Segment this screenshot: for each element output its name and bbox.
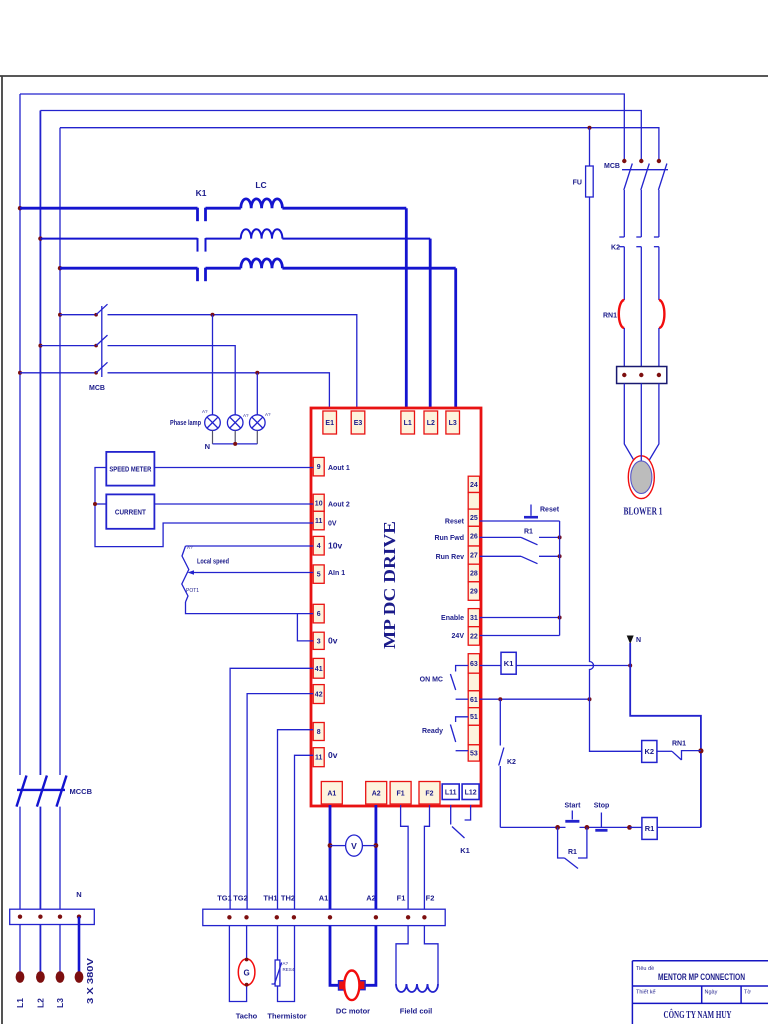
wire control common vertical bbox=[559, 521, 561, 636]
node strip terminal TH2 bbox=[292, 915, 296, 919]
node RN1 to N junction bbox=[698, 748, 703, 753]
wire pin61 rung bbox=[480, 698, 590, 700]
generator Tacho G bbox=[229, 926, 246, 1002]
svg-text:28: 28 bbox=[470, 571, 478, 578]
wire lamp3 drop bbox=[256, 373, 258, 415]
svg-text:L2: L2 bbox=[427, 420, 435, 427]
wire rung start-stop bbox=[580, 826, 630, 828]
svg-text:L1: L1 bbox=[404, 420, 412, 427]
title block frame bbox=[632, 961, 768, 1024]
svg-text:F1: F1 bbox=[397, 790, 405, 797]
node lamp neutral junction bbox=[233, 442, 237, 446]
svg-text:A1: A1 bbox=[319, 894, 329, 903]
contactor K1 + choke LC row 2 (to drive L2) bbox=[38, 236, 42, 240]
wire left phase drop 2 bbox=[39, 111, 41, 776]
svg-text:42: 42 bbox=[315, 692, 323, 699]
wire F1 drive to strip bbox=[401, 805, 409, 909]
svg-text:TG2: TG2 bbox=[233, 894, 248, 903]
node run fwd junction bbox=[558, 535, 562, 539]
svg-text:11: 11 bbox=[315, 518, 323, 525]
pin 61 (drive right) bbox=[468, 691, 479, 708]
overload RN1 pole 1 arc bbox=[619, 300, 624, 328]
svg-text:Ready: Ready bbox=[422, 728, 443, 735]
contact RN1 (NC overload) bbox=[657, 750, 672, 752]
svg-text:A?: A? bbox=[187, 545, 193, 550]
border frame top line bbox=[0, 75, 768, 77]
wire MCB pole1 to E3 bbox=[108, 315, 357, 408]
svg-text:22: 22 bbox=[470, 633, 478, 640]
breaker MCB linkage bar bbox=[101, 306, 103, 377]
svg-text:R1: R1 bbox=[568, 849, 577, 856]
pin 6 (drive left) bbox=[313, 604, 324, 623]
node strip terminal TG1 bbox=[227, 915, 231, 919]
svg-text:3 X 380V: 3 X 380V bbox=[85, 958, 95, 1004]
relay coil K1 bbox=[501, 652, 516, 674]
svg-text:63: 63 bbox=[470, 661, 478, 668]
wire RN1 pole3 tail bbox=[658, 328, 660, 367]
svg-text:0v: 0v bbox=[328, 750, 338, 760]
svg-text:K1: K1 bbox=[196, 188, 207, 198]
wire lamp neutral bus N bbox=[213, 430, 258, 444]
pin blank (drive right) bbox=[468, 673, 479, 691]
wire A1 drive to strip (armature +) bbox=[329, 805, 332, 909]
svg-text:R1: R1 bbox=[524, 529, 533, 536]
contact R1 latch (parallel with Start) bbox=[558, 827, 565, 858]
breaker MCB (left) pole 2 bbox=[38, 344, 42, 348]
node enable junction bbox=[558, 616, 562, 620]
svg-text:F2: F2 bbox=[426, 894, 435, 903]
svg-text:AIn 1: AIn 1 bbox=[328, 570, 345, 577]
pushbutton Stop (NC) bbox=[595, 813, 607, 831]
terminal A2 (drive bottom) bbox=[366, 782, 387, 805]
wire MCCB pole tails bbox=[19, 807, 21, 910]
svg-text:51: 51 bbox=[470, 714, 478, 721]
svg-text:TH1: TH1 bbox=[263, 894, 277, 903]
wire stop to R1 coil bbox=[630, 826, 642, 828]
svg-text:26: 26 bbox=[470, 534, 478, 541]
node blower terminal bbox=[622, 373, 626, 377]
motor BLOWER 1 bbox=[628, 456, 654, 499]
wire pin10 to current meter bbox=[154, 503, 313, 505]
terminal L3 (drive top) bbox=[446, 411, 460, 434]
svg-text:A?: A? bbox=[283, 961, 289, 966]
terminal A1 (drive bottom) bbox=[321, 782, 342, 805]
relay coil K2 bbox=[642, 741, 657, 763]
node strip terminal A2 bbox=[374, 915, 378, 919]
node blower terminal bbox=[657, 373, 661, 377]
terminal strip (motor side) bbox=[203, 909, 445, 925]
svg-text:RN1: RN1 bbox=[603, 313, 617, 320]
svg-text:K1: K1 bbox=[460, 846, 470, 855]
node N arrow bbox=[627, 636, 634, 645]
meter CURRENT bbox=[106, 494, 154, 528]
relay coil R1 bbox=[642, 818, 657, 840]
svg-text:0v: 0v bbox=[328, 636, 338, 646]
node strip terminal F1 bbox=[406, 915, 410, 919]
pin 11 (drive left) label 0v bbox=[313, 748, 324, 767]
svg-text:TG1: TG1 bbox=[217, 894, 232, 903]
wire pin22 24V bbox=[480, 635, 560, 637]
svg-text:POT1: POT1 bbox=[186, 588, 199, 594]
svg-text:F2: F2 bbox=[425, 790, 433, 797]
node MCB right pole 2 top bbox=[639, 159, 643, 163]
svg-text:Thiết kế: Thiết kế bbox=[636, 990, 656, 996]
node supply terminal bbox=[18, 915, 22, 919]
svg-text:Start: Start bbox=[565, 803, 582, 810]
svg-text:Tờ: Tờ bbox=[744, 990, 751, 996]
node run rev junction bbox=[558, 554, 562, 558]
pin 51 (drive right) bbox=[468, 708, 479, 726]
breaker MCB (left) pole 1 bbox=[58, 313, 62, 317]
contact ON MC (63-61) bbox=[456, 666, 469, 672]
pin 24 (drive right) bbox=[468, 476, 479, 492]
wire N rail bbox=[630, 643, 701, 827]
pin 26 (drive right) bbox=[468, 526, 479, 546]
pin 25 (drive right) bbox=[468, 509, 479, 526]
pushbutton Reset bbox=[524, 505, 538, 518]
terminal L1 (drive top) bbox=[401, 411, 415, 434]
node start rung left junction bbox=[555, 825, 560, 830]
wire pin31 Enable bbox=[480, 617, 560, 619]
wire R1 coil to N rail bbox=[657, 826, 701, 828]
svg-text:TH2: TH2 bbox=[281, 894, 295, 903]
pin 29 (drive right) bbox=[468, 582, 479, 601]
svg-text:10v: 10v bbox=[328, 541, 342, 551]
wire pin4 10v to pot top bbox=[186, 545, 314, 547]
svg-text:Enable: Enable bbox=[441, 615, 464, 622]
node strip terminal A1 bbox=[328, 915, 332, 919]
svg-text:5: 5 bbox=[317, 572, 321, 579]
svg-text:FU: FU bbox=[573, 180, 582, 187]
meter SPEED METER bbox=[106, 452, 154, 486]
wire MCB pole 3 lower bbox=[658, 190, 660, 237]
pin 22 (drive right) bbox=[468, 627, 479, 646]
wire K1 coil to N bbox=[516, 665, 630, 667]
svg-text:Phase lamp: Phase lamp bbox=[170, 420, 201, 427]
wire pin42 to TG2 bbox=[247, 694, 313, 910]
wire pin9 to speed meter bbox=[154, 467, 313, 469]
lamp phase lamp 3 bbox=[249, 415, 265, 431]
terminal L2 (drive top) bbox=[424, 411, 438, 434]
node A2 V-tap bbox=[374, 843, 379, 848]
wire MCB pole 2 lower bbox=[640, 190, 642, 237]
svg-text:ON MC: ON MC bbox=[420, 677, 443, 684]
wire phase-2 top feed L2 bbox=[40, 111, 641, 161]
node strip terminal F2 bbox=[422, 915, 426, 919]
wire left phase drop 3 bbox=[59, 128, 61, 775]
contactor K1 + choke LC row 3 (to drive L3) bbox=[58, 266, 62, 270]
svg-text:3: 3 bbox=[317, 638, 321, 645]
svg-text:8: 8 bbox=[317, 729, 321, 736]
node MCB right pole 3 top bbox=[657, 159, 661, 163]
node FU tap junction on phase-3 feed bbox=[588, 126, 592, 130]
svg-text:L1: L1 bbox=[15, 998, 25, 1008]
contact K1 (field loop L11-L12) bbox=[450, 805, 452, 825]
node 61-K2aux junction bbox=[498, 697, 502, 701]
wire MCB pole2 to lamp 2 bbox=[108, 346, 236, 415]
wire current meter stub bbox=[95, 503, 106, 505]
wire MCB pole 1 lower bbox=[623, 190, 625, 237]
wire F2 drive to strip bbox=[424, 805, 429, 909]
svg-text:24V: 24V bbox=[452, 633, 465, 640]
wire blower lead 1 bbox=[624, 384, 634, 461]
pin 41 (drive left) bbox=[313, 658, 324, 678]
wire pin25 reset rung bbox=[480, 520, 560, 522]
pin blank (drive right) bbox=[468, 725, 479, 745]
node 61-FU junction bbox=[588, 697, 592, 701]
wire phase-1 top feed L1 bbox=[20, 94, 624, 160]
contact Ready (51-53) bbox=[456, 717, 469, 722]
node lamp3 tap bbox=[255, 371, 259, 375]
svg-text:MCB: MCB bbox=[604, 163, 620, 170]
node supply dot bbox=[56, 971, 65, 983]
pushbutton Start bbox=[565, 811, 579, 822]
node supply dot bbox=[36, 971, 45, 983]
svg-text:A?: A? bbox=[265, 412, 271, 417]
svg-text:MCB: MCB bbox=[89, 385, 105, 392]
node MCB right pole 1 top bbox=[622, 159, 626, 163]
pin blank (drive right) bbox=[468, 493, 479, 510]
wire pot wiper to pin5 AIn1 bbox=[191, 572, 313, 574]
svg-text:R1: R1 bbox=[645, 824, 655, 833]
svg-text:MP DC DRIVE: MP DC DRIVE bbox=[380, 521, 399, 649]
switch Run Fwd pin26 bbox=[480, 536, 521, 538]
wire pot bottom to pin6 bbox=[186, 602, 314, 614]
wire A2 drive to strip (armature -) bbox=[374, 805, 377, 909]
svg-text:MCCB: MCCB bbox=[70, 787, 93, 796]
pin 31 (drive right) bbox=[468, 609, 479, 627]
pin 9 (drive left) label Aout 1 bbox=[313, 457, 324, 476]
svg-text:A?: A? bbox=[202, 409, 208, 414]
svg-text:Ngày: Ngày bbox=[705, 990, 718, 996]
svg-text:A1: A1 bbox=[327, 790, 336, 797]
svg-text:RES4: RES4 bbox=[283, 967, 295, 972]
pin 27 (drive right) bbox=[468, 546, 479, 564]
potentiometer POT1 bbox=[182, 546, 189, 602]
pin 28 (drive right) bbox=[468, 564, 479, 582]
svg-text:N: N bbox=[76, 890, 81, 899]
svg-text:K2: K2 bbox=[611, 245, 620, 252]
svg-text:LC: LC bbox=[255, 180, 266, 190]
svg-text:25: 25 bbox=[470, 515, 478, 522]
wire pin6 to pin3 jog bbox=[297, 614, 313, 641]
wire 61 node down to K2 coil bbox=[590, 699, 642, 751]
inductor Field coil bbox=[396, 926, 408, 984]
svg-text:A?: A? bbox=[243, 413, 249, 418]
node stop-R1 junction bbox=[627, 825, 632, 830]
terminal F2 (drive bottom) bbox=[419, 782, 440, 805]
svg-text:N: N bbox=[205, 442, 210, 451]
wire MCB pole3 to E1 bbox=[108, 373, 330, 408]
svg-text:F1: F1 bbox=[397, 894, 406, 903]
svg-text:A2: A2 bbox=[372, 790, 381, 797]
node start rung right junction bbox=[585, 825, 590, 830]
svg-text:MENTOR MP CONNECTION: MENTOR MP CONNECTION bbox=[658, 972, 745, 983]
svg-text:31: 31 bbox=[470, 615, 478, 622]
node supply dot bbox=[16, 971, 25, 983]
svg-text:53: 53 bbox=[470, 750, 478, 757]
terminal E3 (drive top) bbox=[351, 411, 365, 434]
pin 5 (drive left) label AIn 1 bbox=[313, 565, 324, 583]
contactor K2 pole 2 bbox=[636, 236, 641, 238]
node meters common junction bbox=[93, 502, 97, 506]
overload RN1 pole 3 arc bbox=[659, 300, 665, 328]
terminal E1 (drive top) bbox=[323, 411, 337, 434]
wire supply leads bbox=[19, 925, 21, 973]
breaker MCB right pole 2 blade bbox=[641, 164, 650, 191]
fuse FU body bbox=[586, 166, 594, 197]
svg-text:61: 61 bbox=[470, 697, 478, 704]
wire left phase drop 1 bbox=[19, 94, 21, 775]
motor DC motor bbox=[330, 926, 340, 986]
svg-text:6: 6 bbox=[317, 611, 321, 618]
wire pin41 to TG1 bbox=[230, 668, 313, 909]
wire RN1 pole1 tail bbox=[623, 328, 625, 367]
svg-text:K1: K1 bbox=[504, 659, 514, 668]
switch Run Rev pin27 bbox=[480, 555, 521, 557]
terminal strip (supply) bbox=[10, 909, 95, 924]
breaker MCB right pole 1 blade bbox=[624, 164, 633, 191]
wire meters common return to pin11 0V bbox=[95, 468, 313, 547]
breaker MCB (left) pole 3 bbox=[18, 371, 22, 375]
wire blower lead 3 bbox=[649, 384, 659, 461]
svg-text:Local speed: Local speed bbox=[197, 559, 229, 566]
pin 11 (drive left) label 0V bbox=[313, 511, 324, 530]
svg-text:11: 11 bbox=[315, 755, 323, 762]
svg-text:L2: L2 bbox=[35, 998, 45, 1008]
svg-text:41: 41 bbox=[315, 666, 323, 673]
terminal L11 (drive bottom) bbox=[442, 784, 459, 800]
svg-text:CÔNG TY NAM HUY: CÔNG TY NAM HUY bbox=[664, 1008, 732, 1021]
node K1 coil to N junction bbox=[628, 664, 632, 668]
svg-text:L3: L3 bbox=[449, 420, 457, 427]
node strip terminal TH1 bbox=[275, 915, 279, 919]
lamp phase lamp 1 bbox=[205, 415, 221, 431]
node supply dot bbox=[75, 971, 84, 983]
lamp phase lamp 2 bbox=[227, 415, 243, 431]
breaker MCB right pole 3 blade bbox=[658, 164, 667, 191]
border frame left line bbox=[1, 76, 3, 1024]
svg-text:CURRENT: CURRENT bbox=[115, 508, 146, 517]
node supply terminal bbox=[77, 915, 81, 919]
svg-text:DC motor: DC motor bbox=[336, 1007, 370, 1016]
pin 8 (drive left) bbox=[313, 723, 324, 741]
node supply terminal bbox=[58, 915, 62, 919]
svg-text:RN1: RN1 bbox=[672, 741, 686, 748]
svg-text:Thermistor: Thermistor bbox=[267, 1012, 306, 1021]
wire pin11b to TH2 bbox=[295, 755, 314, 909]
svg-text:4: 4 bbox=[317, 543, 321, 550]
svg-text:Reset: Reset bbox=[445, 519, 465, 526]
node lamp1 tap bbox=[211, 313, 215, 317]
svg-text:24: 24 bbox=[470, 482, 478, 489]
svg-text:BLOWER 1: BLOWER 1 bbox=[624, 507, 663, 518]
svg-text:Field coil: Field coil bbox=[400, 1007, 433, 1016]
svg-text:29: 29 bbox=[470, 589, 478, 596]
thermistor RES4 bbox=[277, 926, 279, 960]
wire blower lead 2 bbox=[640, 384, 642, 464]
svg-text:Aout 1: Aout 1 bbox=[328, 465, 350, 472]
svg-text:9: 9 bbox=[317, 464, 321, 471]
contact K2 (aux, vertical) bbox=[499, 699, 501, 745]
pin 3 (drive left) label 0v bbox=[313, 632, 324, 649]
wiper arrow bbox=[188, 570, 195, 575]
svg-text:Tacho: Tacho bbox=[236, 1012, 258, 1021]
svg-text:Stop: Stop bbox=[594, 803, 610, 810]
wire pin8 to TH1 bbox=[278, 730, 314, 910]
svg-text:SPEED METER: SPEED METER bbox=[109, 467, 151, 474]
svg-text:E3: E3 bbox=[354, 420, 363, 427]
svg-text:L3: L3 bbox=[55, 998, 65, 1008]
svg-text:Aout 2: Aout 2 bbox=[328, 502, 350, 509]
svg-text:G: G bbox=[243, 968, 249, 977]
pin 10 (drive left) label Aout 2 bbox=[313, 494, 324, 511]
svg-text:E1: E1 bbox=[325, 420, 334, 427]
svg-text:K2: K2 bbox=[645, 747, 655, 756]
node A1 V-tap bbox=[328, 843, 333, 848]
terminal L12 (drive bottom) bbox=[462, 784, 479, 800]
wire start/stop rung bbox=[500, 826, 565, 828]
svg-text:A2: A2 bbox=[366, 894, 376, 903]
pin 42 (drive left) bbox=[313, 685, 324, 704]
breaker MCB right linkage bbox=[622, 169, 668, 171]
meter V (armature volts) bbox=[330, 845, 346, 847]
MP DC DRIVE block outline U1 bbox=[311, 408, 481, 806]
svg-text:K2: K2 bbox=[507, 759, 516, 766]
svg-text:V: V bbox=[351, 841, 357, 851]
fuse FU feeder line bbox=[590, 128, 594, 700]
svg-text:27: 27 bbox=[470, 553, 478, 560]
contactor K2 pole 1 bbox=[619, 236, 624, 238]
svg-text:Run Rev: Run Rev bbox=[436, 554, 465, 561]
breaker MCCB 3-pole bbox=[17, 776, 27, 807]
node blower terminal bbox=[639, 373, 643, 377]
pin 4 (drive left) label 10v bbox=[313, 536, 324, 555]
node strip terminal TG2 bbox=[244, 915, 248, 919]
contactor K2 pole 3 bbox=[654, 236, 659, 238]
wire phase-3 top feed L3 bbox=[60, 128, 659, 160]
svg-text:Run Fwd: Run Fwd bbox=[434, 535, 464, 542]
node supply terminal bbox=[38, 915, 42, 919]
contactor K1 + choke LC row 1 (to drive L1) bbox=[18, 206, 22, 210]
svg-text:N: N bbox=[636, 637, 641, 644]
svg-text:0V: 0V bbox=[328, 521, 337, 528]
svg-text:L12: L12 bbox=[465, 789, 477, 796]
terminal box (blower) bbox=[617, 367, 667, 384]
svg-text:L11: L11 bbox=[445, 789, 457, 796]
pin 63 (drive right) bbox=[468, 654, 479, 674]
svg-text:10: 10 bbox=[315, 500, 323, 507]
wire lamp1 drop bbox=[212, 315, 214, 415]
svg-text:Reset: Reset bbox=[540, 507, 560, 514]
pin 53 (drive right) bbox=[468, 745, 479, 761]
wire pin63 to K1 coil bbox=[480, 665, 501, 667]
terminal F1 (drive bottom) bbox=[390, 782, 411, 805]
svg-text:Tiêu đề: Tiêu đề bbox=[636, 966, 654, 972]
